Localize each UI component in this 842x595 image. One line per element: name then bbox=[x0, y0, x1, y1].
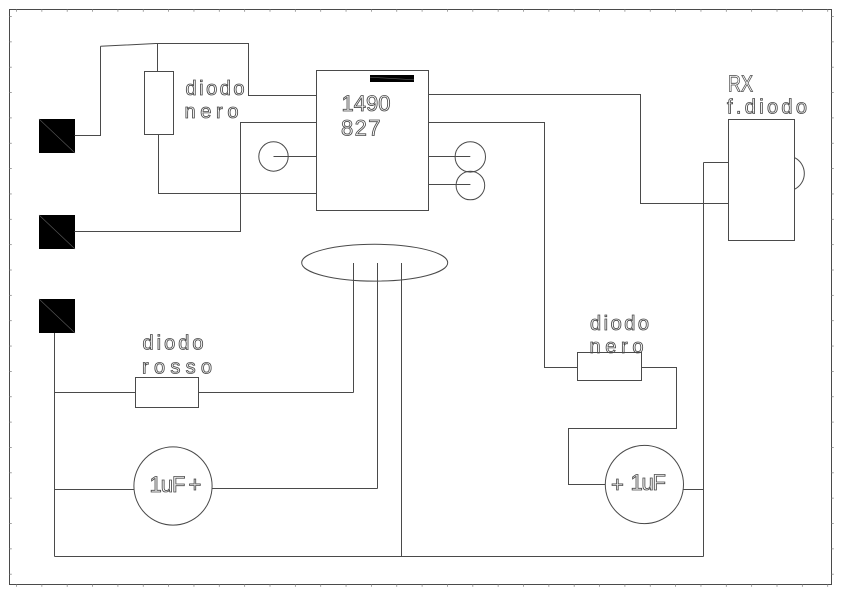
coil lead 1 bbox=[353, 263, 355, 393]
wire D3 to coil lead 1 bbox=[199, 392, 354, 394]
label "diodo rosso" for D3 bbox=[142, 333, 212, 379]
capacitor C2 1uF (circle, right) bbox=[605, 445, 683, 523]
label "diodo nero" for D2 bbox=[590, 313, 650, 358]
coil lead 2 bbox=[377, 263, 379, 489]
capacitor C1 1uF (circle) bbox=[134, 447, 212, 525]
bottom bus wire bbox=[55, 556, 704, 558]
svg-text:1490: 1490 bbox=[342, 91, 391, 116]
wire left rail to D3 bbox=[55, 392, 136, 394]
coil lead 3 bbox=[401, 263, 403, 557]
wire C1 to coil lead 2 bbox=[212, 488, 378, 490]
svg-text:+: + bbox=[189, 472, 202, 497]
module U1 body 1490/827 bbox=[317, 71, 429, 211]
wire node A down to diode D1 top bbox=[157, 44, 159, 72]
label "1uF +" in C1 bbox=[150, 472, 202, 497]
connector pad J1 (black square, top-left) bbox=[39, 119, 75, 153]
svg-text:f.diodo: f.diodo bbox=[727, 97, 807, 119]
transducer coil (ellipse) bbox=[302, 244, 448, 281]
pin circle P1 (left of module) with stub bbox=[259, 142, 317, 171]
svg-text:827: 827 bbox=[341, 116, 381, 141]
svg-text:RX: RX bbox=[728, 71, 753, 97]
wire J1 right to riser bbox=[75, 46, 101, 135]
connector pad J2 (black square, middle-left) bbox=[39, 215, 75, 249]
wire D1 bottom to module pin 4 bbox=[159, 135, 317, 194]
pin circle P3 (right of module, lower) with stub bbox=[429, 171, 485, 200]
label "diodo nero" for D1 bbox=[185, 78, 245, 123]
wire left rail to capacitor C1 bbox=[55, 489, 135, 491]
photodiode RX lens (arc on right side) bbox=[795, 158, 805, 190]
wire module pin 8 to RX f.diodo bbox=[429, 95, 729, 204]
label "RX f.diodo" bbox=[727, 71, 807, 119]
label "+ 1uF" in C2 bbox=[611, 470, 666, 497]
wire stub RX left pin bbox=[704, 162, 729, 164]
wire RX down right side to bottom bus bbox=[703, 163, 705, 557]
svg-text:+: + bbox=[611, 472, 624, 497]
wire J2 to module pin 2 bbox=[75, 123, 317, 232]
diode D2 body "diodo nero" (horizontal rectangle, right) bbox=[578, 353, 642, 381]
wire riser sloped top segment bbox=[101, 44, 317, 96]
connector pad J3 (black square, lower-left) bbox=[39, 299, 75, 333]
diode D3 body "diodo rosso" (horizontal rectangle) bbox=[136, 378, 199, 408]
svg-text:diodo: diodo bbox=[143, 333, 204, 355]
svg-text:1uF: 1uF bbox=[631, 470, 667, 495]
diode D1 body "diodo nero" (vertical rectangle) bbox=[145, 72, 174, 135]
wire D2 to capacitor C2 (zigzag) bbox=[569, 368, 677, 485]
wire C2 to right vertical wire bbox=[684, 489, 704, 491]
svg-text:diodo: diodo bbox=[186, 78, 245, 100]
photodiode RX body bbox=[729, 120, 795, 241]
wire module pin 7 down to diode D2 bbox=[429, 123, 578, 368]
svg-text:diodo: diodo bbox=[590, 313, 649, 335]
module U1 index mark (black bar) bbox=[370, 75, 414, 82]
label "1490 827" for U1 bbox=[341, 91, 391, 141]
wire J3 down the left rail bbox=[54, 333, 56, 557]
svg-text:1uF: 1uF bbox=[150, 472, 186, 497]
pin circle P2 (right of module, upper) with stub bbox=[429, 142, 486, 172]
